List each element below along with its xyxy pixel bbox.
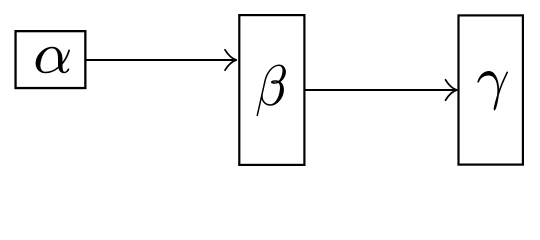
label alpha	[36, 47, 70, 73]
label beta	[257, 64, 286, 116]
arrowhead 1	[225, 50, 236, 70]
wire alpha to beta	[87, 59, 235, 61]
box alpha	[16, 31, 86, 88]
arrowhead 2	[446, 80, 457, 100]
label gamma	[477, 71, 508, 110]
wire beta to gamma	[306, 89, 455, 91]
box beta	[239, 15, 304, 165]
box gamma	[459, 15, 523, 164]
